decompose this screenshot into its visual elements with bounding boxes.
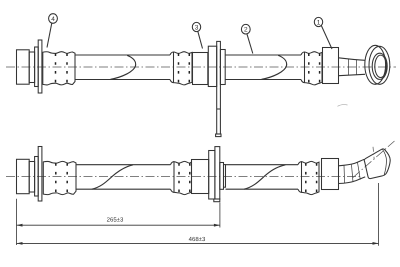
svg-text:4: 4	[51, 16, 55, 23]
svg-text:3: 3	[195, 24, 199, 31]
svg-text:2: 2	[244, 27, 248, 34]
svg-text:468±3: 468±3	[189, 236, 206, 243]
svg-text:265±3: 265±3	[107, 217, 124, 224]
svg-text:1: 1	[317, 19, 321, 26]
